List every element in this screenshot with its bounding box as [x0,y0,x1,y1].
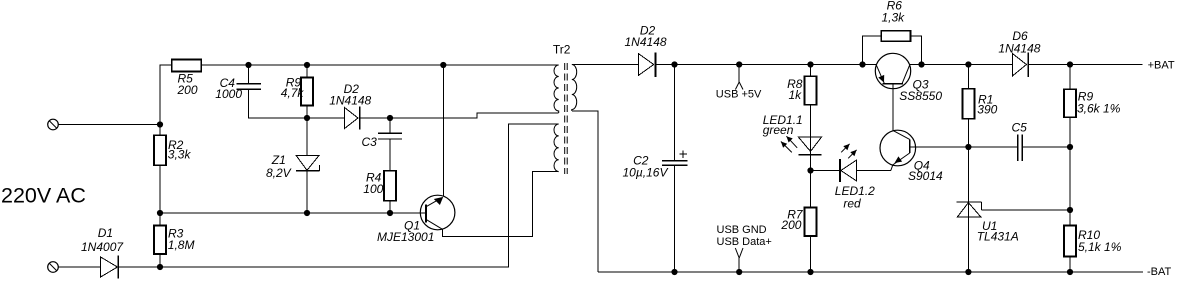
wire secondary top [572,64,639,66]
wire [811,170,840,172]
node [387,210,393,216]
node [157,121,163,127]
wire [891,165,893,171]
wire emitter to feedback winding [443,172,559,237]
svg-text:green: green [763,123,794,137]
svg-text:200: 200 [780,218,801,232]
node [245,62,251,68]
svg-text:220V AC: 220V AC [1,183,86,207]
diode D2 output [625,23,667,77]
svg-text:100: 100 [363,182,383,196]
svg-text:3,6k 1%: 3,6k 1% [1077,101,1121,115]
transistor Q4 [880,130,943,183]
node USB GND Data [717,224,772,272]
wire Q3 base to Q4 [892,84,894,131]
node [157,264,163,270]
node [1067,61,1073,67]
resistor R3 [154,226,194,255]
svg-text:+BAT: +BAT [1148,59,1175,71]
wire top rail right 3 [1028,64,1142,66]
node [1067,269,1073,275]
wire [307,117,345,119]
svg-text:red: red [843,197,861,211]
resistor R9 3,6k [1064,65,1121,148]
node [965,61,971,67]
node [1067,144,1073,150]
diode D1 [81,226,124,279]
wire U1 ref [982,209,1070,211]
transistor Q1 [377,195,455,244]
resistor R5 [172,60,202,98]
svg-text:1k: 1k [789,88,803,102]
node [157,210,163,216]
node [440,62,446,68]
node [671,61,677,67]
resistor R8 [787,65,816,105]
node [807,61,813,67]
node USB +5V [716,65,762,101]
LED LED1.1 [763,113,822,155]
node [671,269,677,275]
terminal bottom-left [48,262,59,273]
wire Q4 base [910,146,969,148]
wire secondary bottom [572,111,598,272]
node [859,61,865,67]
node [807,167,813,173]
node [304,210,310,216]
LED LED1.2 [835,144,875,211]
svg-text:200: 200 [177,83,198,97]
wire [857,170,891,172]
wire [160,65,172,125]
capacitor C5 [968,121,1070,161]
svg-text:Tr2: Tr2 [553,43,571,57]
wire [58,266,100,268]
terminal top-left [48,119,59,130]
wire [360,117,390,119]
svg-text:-BAT: -BAT [1147,266,1172,278]
wire top rail right 2 [910,64,1013,66]
node [918,61,924,67]
capacitor C2 [623,65,688,273]
wire [159,125,161,136]
resistor R1 [962,65,997,148]
wire collector riser [442,65,444,197]
transformer Tr2 [553,43,577,175]
wire [159,165,161,213]
svg-text:USB +5V: USB +5V [716,89,762,101]
wire bottom-left rail [118,124,558,267]
svg-text:USB Data+: USB Data+ [717,236,772,248]
svg-text:5,1k 1%: 5,1k 1% [1078,240,1122,254]
capacitor C3 [362,118,403,171]
node [304,115,310,121]
svg-text:390: 390 [977,102,997,116]
wire top rail left [201,64,558,66]
zener Z1 [266,118,320,213]
svg-text:Z1: Z1 [271,153,286,167]
resistor R2 [154,135,191,165]
wire [810,105,812,171]
node [387,115,393,121]
wire to primary bottom [390,113,559,118]
svg-text:TL431A: TL431A [977,229,1019,243]
diode D6 [998,29,1040,77]
svg-text:10µ,16V: 10µ,16V [623,166,669,180]
svg-text:C3: C3 [362,135,378,149]
node [736,61,742,67]
svg-text:1,8M: 1,8M [168,238,195,252]
svg-text:1,3k: 1,3k [882,10,906,24]
node [965,269,971,275]
svg-text:1N4007: 1N4007 [81,240,124,254]
shunt regulator U1 [957,147,1019,272]
svg-text:SS8550: SS8550 [899,89,942,103]
svg-text:1000: 1000 [215,87,242,101]
svg-text:S9014: S9014 [908,169,943,183]
node [965,144,971,150]
svg-text:1N4148: 1N4148 [329,94,371,108]
transistor Q3 [875,53,942,103]
svg-text:1N4148: 1N4148 [625,35,667,49]
wire [159,213,161,226]
wire top rail right 1 [655,64,876,66]
resistor R7 [780,171,816,273]
svg-text:USB GND: USB GND [717,224,767,236]
svg-text:3,3k: 3,3k [168,148,192,162]
node [1067,207,1073,213]
svg-text:D1: D1 [98,226,113,240]
svg-text:1N4148: 1N4148 [998,41,1040,55]
diode D2 snubber [329,82,371,130]
capacitor C4 [215,65,307,118]
resistor R6 [863,0,922,65]
node [736,269,742,275]
wire bottom rail right [598,271,1143,273]
wire [1069,147,1071,210]
resistor R10 [1064,210,1122,272]
svg-text:4,7k: 4,7k [281,86,305,100]
svg-text:C5: C5 [1012,121,1028,135]
wire mid rail [160,212,426,214]
svg-text:8,2V: 8,2V [266,166,292,180]
node [807,269,813,275]
wire [58,124,160,126]
resistor R9 4,7k [281,65,313,118]
resistor R4 [363,171,396,214]
node [304,62,310,68]
wire [159,254,161,267]
svg-text:MJE13001: MJE13001 [377,230,434,244]
